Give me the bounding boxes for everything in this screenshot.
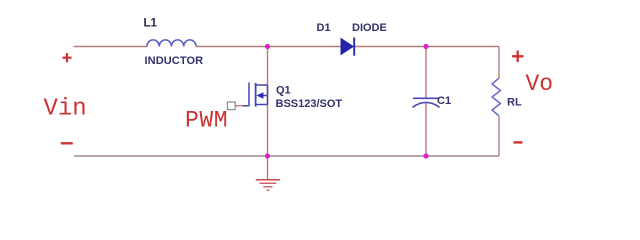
gate bar: [248, 83, 250, 107]
plus terminal Vo: [512, 51, 523, 62]
svg-text:Vin: Vin: [44, 95, 87, 122]
junction dot at C1 top: [423, 44, 428, 49]
resistor RL: [492, 79, 501, 116]
transistor body arrow: [256, 92, 263, 98]
wire C1 rail lower: [425, 103, 427, 156]
drain stub: [256, 84, 268, 86]
PWM port pad: [228, 102, 236, 110]
svg-text:INDUCTOR: INDUCTOR: [145, 55, 204, 67]
minus terminal Vo: [514, 141, 523, 143]
junction dot at drain top: [265, 44, 270, 49]
ground stem: [267, 156, 269, 180]
svg-text:DIODE: DIODE: [352, 22, 387, 34]
wire top rail inductor to diode: [196, 46, 341, 48]
wire C1 rail upper: [425, 47, 427, 99]
svg-text:Vo: Vo: [526, 71, 554, 97]
capacitor C1: [413, 98, 440, 107]
wire bottom rail: [74, 155, 499, 157]
channel bar: [255, 83, 257, 107]
wire right rail upper: [498, 47, 500, 80]
plus terminal Vin: [62, 53, 71, 62]
gate lead: [242, 105, 249, 107]
body stub: [263, 95, 268, 97]
source stub: [256, 104, 268, 106]
svg-text:D1: D1: [317, 22, 331, 34]
diode D1: [341, 39, 353, 55]
wire top rail diode to right corner: [355, 46, 499, 48]
svg-text:C1: C1: [437, 95, 451, 107]
transistor Q1: [242, 83, 268, 107]
wire pad to gate: [236, 105, 244, 107]
svg-text:BSS123/SOT: BSS123/SOT: [276, 98, 343, 110]
minus terminal Vin: [61, 142, 73, 144]
svg-text:L1: L1: [144, 17, 158, 29]
junction dot at source bottom: [265, 153, 270, 158]
rail connector: [267, 85, 269, 105]
svg-text:Q1: Q1: [276, 84, 291, 96]
svg-text:RL: RL: [507, 97, 522, 109]
junction dot at C1 bottom: [423, 153, 428, 158]
inductor L1: [147, 40, 196, 47]
svg-text:PWM: PWM: [185, 108, 228, 134]
ground: [256, 180, 280, 191]
wire top rail left of inductor: [74, 46, 148, 48]
wire right rail lower: [498, 116, 500, 157]
wire drain-source rail: [267, 47, 269, 157]
